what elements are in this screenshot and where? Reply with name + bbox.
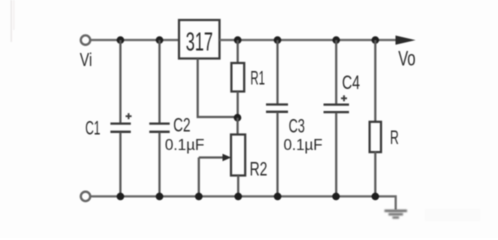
svg-text:C1: C1: [85, 118, 100, 139]
node C3 top junction: [274, 36, 282, 44]
node R1 top junction: [234, 36, 242, 44]
resistor R1: [231, 63, 244, 92]
node C2 bottom junction: [156, 193, 164, 201]
node C4 bottom junction: [332, 193, 340, 201]
wire top rail right segment: [220, 39, 399, 41]
node wiper bottom junction: [195, 193, 203, 201]
svg-text:Vo: Vo: [398, 47, 415, 71]
wire wiper to ground rail: [198, 158, 200, 197]
svg-text:C4: C4: [342, 73, 360, 94]
capacitor C4 plates: [324, 105, 350, 113]
resistor R: [370, 122, 381, 152]
wire R1 top lead: [237, 40, 239, 64]
node R bottom junction: [372, 193, 380, 201]
capacitor C1 bottom lead: [119, 132, 121, 196]
capacitor C3 plates: [266, 105, 288, 112]
capacitor C3 bottom lead: [276, 112, 278, 196]
label C4: [342, 73, 360, 94]
label Vi: [80, 49, 92, 70]
label C1: [85, 118, 100, 139]
label C2: [173, 116, 190, 137]
potentiometer R2: [231, 135, 245, 176]
label Vo: [398, 47, 415, 71]
capacitor C3 top lead: [276, 40, 278, 104]
node R2 bottom junction: [234, 193, 242, 201]
svg-text:C3: C3: [289, 117, 305, 138]
plus sign of C1: [126, 113, 132, 119]
svg-text:0.1µF: 0.1µF: [284, 137, 323, 154]
node C2 top junction: [156, 36, 164, 44]
node ADJ junction: [234, 114, 242, 122]
wire R bottom lead: [374, 152, 376, 197]
wiper arrow of R2: [199, 154, 231, 162]
value label 0.1uF of C2: [165, 137, 205, 154]
label R1: [250, 68, 265, 89]
output arrow to Vo: [396, 36, 416, 45]
wire R2 bottom lead: [237, 176, 239, 197]
svg-text:C2: C2: [173, 116, 190, 137]
svg-text:R: R: [390, 128, 399, 149]
node R top junction: [372, 36, 380, 44]
wire R top lead: [374, 40, 376, 122]
ground: [385, 211, 408, 218]
wire top rail left segment: [90, 39, 180, 41]
node C1 bottom junction: [117, 193, 125, 201]
regulator U1 LM317 box: [179, 20, 220, 59]
value label 0.1uF of C3: [284, 137, 323, 154]
capacitor C2 bottom lead: [158, 132, 160, 196]
svg-text:R2: R2: [250, 159, 268, 180]
label R: [390, 128, 399, 149]
plus sign of C4: [341, 95, 347, 101]
wire bottom rail: [90, 196, 396, 209]
return terminal circle: [81, 192, 90, 201]
node C1 top junction: [117, 36, 125, 44]
capacitor C2 plates: [149, 124, 169, 132]
label C3: [289, 117, 305, 138]
capacitor C1 top lead: [119, 40, 121, 123]
label R2: [250, 159, 268, 180]
wire 317 ADJ pin down: [198, 59, 236, 118]
capacitor C1 plates: [110, 124, 130, 132]
capacitor C2 top lead: [158, 40, 160, 123]
capacitor C4 top lead: [335, 40, 337, 104]
svg-text:317: 317: [186, 27, 213, 57]
svg-text:Vi: Vi: [80, 49, 92, 70]
capacitor C4 bottom lead: [335, 113, 337, 197]
svg-text:0.1µF: 0.1µF: [165, 137, 205, 154]
node C3 bottom junction: [274, 193, 282, 201]
svg-text:R1: R1: [250, 68, 265, 89]
wire junction to R2 top: [237, 118, 239, 135]
input terminal circle: [81, 35, 90, 44]
wire R1 bottom lead: [237, 92, 239, 119]
node C4 top junction: [332, 36, 340, 44]
